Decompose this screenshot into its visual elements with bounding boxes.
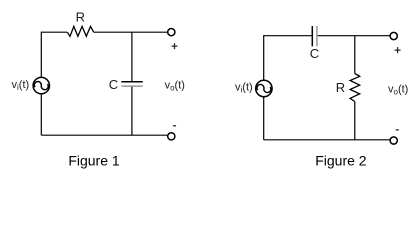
wire: fig1 capacitor branch upper bbox=[131, 32, 133, 81]
wire: fig1 bottom rail bbox=[41, 134, 167, 136]
label + (fig2) bbox=[395, 47, 401, 53]
capacitor C (fig2) bbox=[311, 26, 313, 46]
voltage source V1 (fig1) bbox=[33, 77, 49, 93]
svg-text:R: R bbox=[76, 9, 85, 24]
node: fig1 output - terminal bbox=[168, 133, 175, 140]
wire: fig1 left rail lower bbox=[40, 94, 42, 135]
svg-text:vo(t): vo(t) bbox=[165, 79, 185, 92]
wire: fig2 resistor branch upper bbox=[354, 36, 356, 74]
svg-text:Figure 1: Figure 1 bbox=[68, 153, 120, 169]
wire: fig1 top rail right segment bbox=[94, 31, 168, 33]
resistor R (fig1) bbox=[67, 26, 93, 36]
wire: fig2 top rail left segment bbox=[264, 36, 312, 81]
resistor R (fig2) bbox=[350, 74, 360, 102]
voltage source V2 (fig2) bbox=[256, 80, 272, 96]
svg-text:C: C bbox=[310, 46, 319, 61]
label - (fig2) bbox=[396, 129, 399, 131]
wire: fig1 top rail left segment bbox=[41, 32, 67, 77]
svg-text:vo(t): vo(t) bbox=[388, 83, 408, 96]
svg-text:R: R bbox=[336, 80, 345, 95]
svg-text:vi(t): vi(t) bbox=[12, 79, 30, 92]
node: fig1 output + terminal bbox=[168, 28, 175, 35]
svg-text:vi(t): vi(t) bbox=[235, 81, 253, 94]
capacitor C (fig1) bbox=[121, 81, 143, 83]
svg-text:C: C bbox=[109, 77, 118, 92]
svg-text:Figure 2: Figure 2 bbox=[315, 153, 367, 169]
wire: fig2 left rail lower bbox=[263, 97, 265, 140]
node: fig2 output + terminal bbox=[390, 32, 397, 39]
node: fig2 output - terminal bbox=[390, 137, 397, 144]
wire: fig2 bottom rail bbox=[264, 139, 390, 141]
wire: fig2 resistor branch lower bbox=[354, 102, 356, 140]
wire: fig1 capacitor branch lower bbox=[131, 87, 133, 136]
label - (fig1) bbox=[173, 125, 176, 127]
label + (fig1) bbox=[172, 43, 178, 49]
wire: fig2 top rail right segment bbox=[318, 35, 390, 37]
